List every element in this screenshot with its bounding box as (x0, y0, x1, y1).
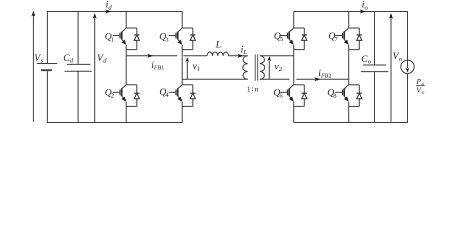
current arrow iFB2 (315, 77, 321, 81)
svg-text:5: 5 (280, 36, 284, 43)
wire right bridge leg 2 upper (348, 12, 350, 29)
wire left bridge leg 1 upper (125, 12, 127, 29)
transistor Q1 (122, 28, 127, 32)
wire emitter stub Q6 (294, 105, 305, 107)
voltage arrow v2 annotation (268, 60, 270, 79)
wire left source top (46, 12, 48, 64)
transistor Q3 (178, 28, 183, 32)
wire collector stub Q4 (182, 84, 193, 86)
wire primary bottom rail (47, 122, 182, 124)
diode antiparallel of Q7 (358, 28, 360, 50)
voltage arrow Vs annotation (32, 15, 34, 122)
svg-text:1: 1 (197, 66, 200, 73)
current arrow iL (238, 54, 244, 58)
transistor Q8 (344, 85, 349, 89)
wire load bottom (407, 74, 409, 123)
wire bridge1 output A cont (183, 55, 207, 57)
diode antiparallel of Q2 (136, 85, 138, 107)
wire right bridge leg 2 lower (348, 102, 350, 123)
current arrow io (360, 10, 366, 14)
svg-text:o: o (422, 90, 425, 96)
inductor L (207, 52, 228, 56)
svg-text:FB: FB (320, 74, 329, 80)
current arrow id (105, 10, 111, 14)
transformer secondary winding (260, 56, 265, 80)
current arrow iFB1 (147, 54, 153, 58)
svg-text:7: 7 (334, 36, 338, 43)
svg-text:o: o (399, 56, 403, 63)
wire Cd bottom (77, 71, 79, 122)
wire emitter stub Q7 (349, 49, 360, 51)
diode antiparallel of Q1 (136, 28, 138, 50)
wire transformer to bridge2 top (260, 55, 294, 57)
wire bridge1 output B (182, 78, 248, 80)
wire collector stub Q2 (126, 84, 137, 86)
transformer primary winding (243, 56, 248, 80)
diode antiparallel of Q6 (303, 85, 305, 107)
capacitor Cd plate bottom (65, 70, 92, 72)
wire transformer to bridge2 bottom B (296, 78, 348, 80)
wire primary top rail (47, 11, 182, 13)
svg-text:1: 1 (161, 66, 164, 72)
wire left bridge leg 1 middle (125, 45, 127, 85)
battery source Vs plate + (37, 63, 57, 65)
wire right bridge leg 1 lower (293, 102, 295, 123)
transistor Q4 (178, 85, 183, 89)
diode antiparallel of Q8 (358, 85, 360, 107)
wire right bridge leg 2 middle (348, 45, 350, 85)
wire emitter stub Q4 (182, 105, 193, 107)
svg-text:2: 2 (328, 74, 331, 80)
capacitor Co plate bottom (361, 71, 388, 73)
wire emitter stub Q8 (349, 105, 360, 107)
voltage arrow Vo annotation (390, 17, 392, 122)
svg-text:n: n (255, 84, 259, 93)
svg-text:1: 1 (247, 84, 251, 93)
transistor Q6 (289, 85, 294, 89)
wire Co top (374, 12, 376, 66)
wire left bridge leg 2 middle (181, 45, 183, 85)
wire Co bottom (374, 72, 376, 123)
svg-text:L: L (215, 40, 221, 51)
svg-text:6: 6 (279, 92, 283, 99)
svg-text:4: 4 (165, 92, 169, 99)
diode antiparallel of Q3 (192, 28, 194, 50)
wire load top (407, 12, 409, 61)
svg-text:FB: FB (153, 66, 162, 72)
voltage arrow Vd annotation (94, 17, 96, 122)
wire right bridge leg 1 middle (293, 45, 295, 85)
svg-text:o: o (422, 81, 425, 87)
wire secondary bottom rail (294, 122, 408, 124)
wire collector stub Q1 (126, 27, 137, 29)
wire emitter stub Q2 (126, 105, 137, 107)
svg-text:s: s (41, 58, 44, 65)
wire collector stub Q6 (294, 84, 305, 86)
svg-text:1: 1 (111, 36, 114, 43)
wire left source bottom (46, 71, 48, 122)
wire emitter stub Q1 (126, 49, 137, 51)
transistor Q7 (344, 28, 349, 32)
wire left bridge leg 2 upper (181, 12, 183, 29)
svg-text:8: 8 (333, 92, 337, 99)
transformer core (254, 54, 256, 80)
wire L to transformer (229, 55, 248, 57)
transistor Q5 (289, 28, 294, 32)
wire right bridge leg 1 upper (293, 12, 295, 29)
svg-text:o: o (365, 4, 369, 11)
svg-text::: : (252, 84, 254, 93)
svg-text:d: d (108, 4, 112, 11)
wire emitter stub Q3 (182, 49, 193, 51)
wire collector stub Q8 (349, 84, 360, 86)
svg-text:2: 2 (111, 92, 114, 99)
svg-text:d: d (70, 58, 74, 65)
battery source Vs plate - (41, 69, 52, 71)
current source load Po/Vo (401, 60, 414, 73)
voltage arrow v1 annotation (186, 61, 188, 79)
capacitor Co plate top (363, 64, 386, 66)
wire bridge1 output A (126, 55, 177, 57)
transistor Q2 (122, 85, 127, 89)
svg-text:d: d (103, 58, 107, 65)
diode antiparallel of Q4 (192, 85, 194, 107)
diode antiparallel of Q5 (303, 28, 305, 50)
wire collector stub Q5 (294, 27, 305, 29)
wire collector stub Q3 (182, 27, 193, 29)
wire emitter stub Q5 (294, 49, 305, 51)
wire left bridge leg 2 lower (181, 102, 183, 123)
svg-text:L: L (242, 49, 247, 56)
wire collector stub Q7 (349, 27, 360, 29)
wire transformer to bridge2 bottom A (260, 78, 290, 80)
svg-text:2: 2 (279, 66, 282, 73)
capacitor Cd plate top (67, 63, 91, 65)
wire secondary top rail (294, 11, 408, 13)
svg-text:3: 3 (165, 36, 169, 43)
wire Cd top (77, 12, 79, 65)
wire left bridge leg 1 lower (125, 102, 127, 123)
